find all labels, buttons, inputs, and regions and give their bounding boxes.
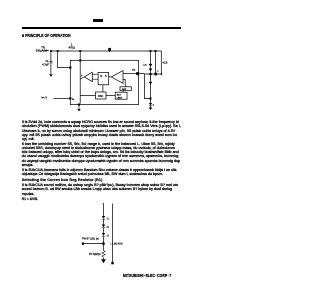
paragraph B [22,142,182,168]
junction dot stub [102,243,104,245]
latch block R S [98,72,109,84]
wire FB stub [84,243,103,245]
footer [123,273,171,278]
IC box outline [70,60,138,104]
diode D1 [102,216,105,219]
terminal square [111,262,113,264]
wire ref to limiter [122,91,124,93]
wire left chain [103,203,105,216]
header rule [22,27,182,29]
transistor Q2 mark [149,69,153,72]
svg-text:REF: REF [122,89,127,91]
ground (capacitor CL) [49,74,53,77]
wire 1.25V to FB pin [54,97,70,99]
output node wire to emitter chain [139,74,150,99]
junction dot [154,73,157,76]
svg-text:a: a [157,70,159,72]
latch to osc wire [102,85,104,92]
svg-text:d1: d1 [107,218,110,220]
svg-text:+15: +15 [162,61,167,65]
svg-text:d: d [153,105,154,107]
pin pad comp input [69,67,71,69]
transistor Q1 mark [149,64,153,67]
formula R1 [22,197,38,201]
svg-text:S: S [105,75,107,78]
svg-text:5b: 5b [72,99,75,101]
output stub with arrow [160,51,162,74]
svg-text:B&T: B&T [117,94,122,96]
latch to driver wire [109,76,112,78]
current limit block [115,92,127,99]
ground (bottom circuit) [101,259,106,263]
svg-text:PW B? L(B). (b): PW B? L(B). (b) [82,238,99,241]
second collector line [155,50,157,52]
svg-text:B? 5(ΔB)Ω: B? 5(ΔB)Ω [89,253,101,256]
svg-text:4.7μF: 4.7μF [42,62,49,66]
diode D2 [102,225,105,228]
comparator U1 [84,72,92,81]
pin pad box top [79,59,81,61]
resistor R zigzag [102,251,105,258]
junction dot Q emitter [149,73,151,75]
svg-text:l=:.V: l=:.V [42,95,48,99]
circuit figure [0,0,1,1]
paragraph A [22,120,182,141]
wire osc to limiter [106,95,115,97]
top supply rail [51,50,162,52]
svg-text:LIMIT: LIMIT [117,97,123,99]
paragraph C [22,168,182,177]
paragraph D [22,183,182,196]
svg-text:R: R [100,75,102,78]
svg-text:d2: d2 [107,227,110,229]
ground (IC) [77,109,81,112]
svg-text:470Ω: 470Ω [69,45,75,49]
sense mark on rail (pin 7) [108,48,111,51]
internal vertical from top pad [79,61,81,103]
diode D3 [102,233,105,236]
comparator outputs to latch [92,74,98,79]
wire rail to IC pin (comp input) [57,50,59,52]
wire rail into box top (driver collector) [79,50,81,52]
wire right vertical [112,204,114,263]
svg-text:a=b: a=b [143,65,147,67]
transistor Q1 collector line [150,50,152,52]
svg-text:.: . [102,80,103,83]
driver amp U2 [111,71,123,84]
ground (diode) [149,108,153,111]
reference block [120,87,131,91]
diode mark on emitter line [149,82,153,85]
svg-text:B2: B2 [132,69,135,71]
section heading [22,33,71,38]
pin pad GND bottom edge [78,104,80,106]
svg-text:+: + [81,75,83,78]
junction dot bottom [150,98,152,100]
oscillator block OSC [96,92,107,99]
capacitor CL [50,51,52,61]
node FB square [82,243,84,245]
header page number block [93,19,103,22]
pin pad output (right edge) [136,72,139,75]
diode D to ground [150,99,152,103]
node VIN junction dot [50,50,52,52]
svg-text:OSC: OSC [98,95,103,98]
heading Selecting [22,178,103,182]
svg-text:d3: d3 [107,235,110,237]
pin pad left edge (FB) [69,97,71,99]
driver output wire to pin pad [123,73,137,75]
ref block wire [123,80,125,87]
